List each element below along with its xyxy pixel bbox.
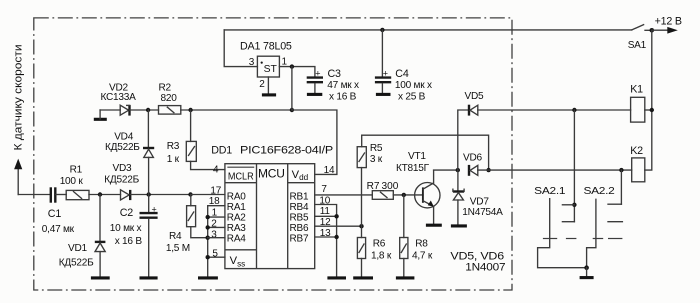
node +12 bbox=[650, 28, 655, 33]
diode VD5 bbox=[458, 110, 469, 170]
svg-text:R7 300: R7 300 bbox=[367, 181, 399, 192]
node SA2.2 tap bbox=[619, 168, 623, 172]
svg-text:RB7: RB7 bbox=[290, 233, 309, 244]
+12V top rail bbox=[224, 29, 632, 31]
wire rail to pin14 riser bbox=[292, 110, 337, 174]
node R4 junction bbox=[188, 192, 192, 196]
switch SA2.2 wiper bbox=[587, 199, 596, 267]
svg-text:17: 17 bbox=[210, 185, 221, 196]
relay K1 bbox=[631, 97, 645, 122]
wire RA1 stub and ground bracket bbox=[208, 206, 225, 277]
svg-text:VD3: VD3 bbox=[113, 163, 133, 174]
wire RA4 stub node bbox=[206, 236, 210, 240]
svg-text:SA1: SA1 bbox=[628, 40, 647, 51]
wire RA2 stub bbox=[208, 216, 225, 218]
svg-text:R3: R3 bbox=[167, 141, 180, 152]
svg-text:MCLR: MCLR bbox=[228, 171, 254, 182]
wire RB4 stub and right ground bracket bbox=[315, 205, 337, 277]
svg-text:R2: R2 bbox=[159, 82, 172, 93]
zener VD2 КС133А bbox=[120, 105, 129, 115]
ground R6 bbox=[353, 276, 373, 279]
node VD4/C2 junction bbox=[147, 192, 151, 196]
svg-text:C3: C3 bbox=[328, 68, 342, 80]
svg-text:ST: ST bbox=[264, 64, 278, 75]
svg-text:+: + bbox=[152, 204, 157, 214]
capacitor C3 bbox=[307, 76, 323, 78]
switch SA1 bbox=[632, 25, 644, 30]
+12V arrow bbox=[652, 29, 668, 31]
wire RB6 pin12 to divider bbox=[315, 225, 362, 227]
wire R1 to node bbox=[89, 194, 121, 196]
svg-text:КД522Б: КД522Б bbox=[104, 174, 139, 185]
svg-text:14: 14 bbox=[324, 165, 335, 176]
svg-text:1,5 М: 1,5 М bbox=[166, 243, 190, 254]
ground VD7 bbox=[451, 224, 467, 227]
svg-text:х 25 В: х 25 В bbox=[398, 92, 426, 103]
svg-text:С2: С2 bbox=[120, 207, 134, 219]
op IC DA1 78L05 box bbox=[257, 56, 279, 77]
DA1 pin2 ground stub bbox=[267, 77, 269, 93]
wire VD5 to K1 bbox=[478, 109, 631, 111]
svg-text:КД522Б: КД522Б bbox=[59, 257, 94, 268]
svg-text:5: 5 bbox=[212, 249, 218, 260]
node +5V from regulator bbox=[290, 108, 294, 112]
wire Vss stub bbox=[208, 256, 225, 258]
ground MCU left bbox=[198, 276, 218, 279]
ground VT1 emitter bbox=[426, 224, 442, 227]
svg-text:R8: R8 bbox=[415, 239, 428, 250]
wire C1 to R1 bbox=[56, 194, 66, 196]
svg-text:+: + bbox=[315, 69, 320, 79]
svg-text:4: 4 bbox=[213, 165, 219, 176]
resistor R5 bbox=[362, 135, 489, 170]
ground R8 bbox=[396, 276, 415, 279]
svg-text:3: 3 bbox=[211, 229, 217, 240]
svg-text:1N4007: 1N4007 bbox=[465, 261, 505, 273]
svg-text:VD7: VD7 bbox=[470, 197, 490, 208]
svg-text:х 16 В: х 16 В bbox=[115, 236, 143, 247]
node R8/base bbox=[402, 193, 406, 197]
svg-text:R1: R1 bbox=[70, 164, 83, 175]
node R5/R6 divider bbox=[359, 224, 363, 228]
svg-text:K1: K1 bbox=[630, 84, 643, 96]
svg-text:3 к: 3 к bbox=[370, 154, 383, 165]
svg-text:К датчику скорости: К датчику скорости bbox=[13, 44, 25, 150]
wire R2 to R3 node bbox=[181, 109, 292, 111]
resistor R4 bbox=[190, 195, 192, 206]
svg-text:Vdd: Vdd bbox=[292, 169, 309, 182]
diode VD1 bbox=[99, 195, 101, 242]
svg-text:RA4: RA4 bbox=[227, 233, 246, 244]
switch SA2.2 moving contact from K2 bbox=[620, 170, 622, 204]
wire VD2 to node bbox=[130, 109, 159, 111]
wire collector to VD node bbox=[434, 169, 458, 171]
svg-text:RB1: RB1 bbox=[290, 191, 309, 202]
node VD1 junction bbox=[98, 192, 102, 196]
MCU DD1 box bbox=[225, 164, 315, 269]
input arrow bbox=[17, 169, 19, 195]
wire node to +5 rail bbox=[291, 67, 293, 110]
wire RB7 stub bbox=[315, 236, 337, 238]
wire VD6 to K2 bbox=[478, 169, 632, 171]
svg-text:VT1: VT1 bbox=[408, 151, 426, 162]
svg-text:+12 В: +12 В bbox=[655, 15, 682, 27]
svg-text:820: 820 bbox=[161, 93, 178, 104]
svg-text:0,47 мк: 0,47 мк bbox=[42, 224, 75, 235]
ground C4 bbox=[376, 93, 391, 96]
resistor R6 bbox=[357, 238, 365, 259]
svg-text:100 мк х: 100 мк х bbox=[395, 80, 432, 91]
svg-text:R5: R5 bbox=[370, 143, 383, 154]
svg-text:VD4: VD4 bbox=[114, 131, 134, 142]
ground DA1 bbox=[262, 93, 276, 96]
capacitor C4 bbox=[381, 30, 383, 76]
svg-text:1 к: 1 к bbox=[167, 154, 180, 165]
svg-text:Vss: Vss bbox=[230, 255, 246, 268]
ground C3 bbox=[307, 93, 322, 96]
svg-text:RA0: RA0 bbox=[227, 191, 246, 202]
svg-text:7: 7 bbox=[321, 184, 327, 195]
node C4 tap bbox=[380, 28, 384, 32]
svg-text:VD1: VD1 bbox=[68, 243, 88, 254]
diode VD6 bbox=[468, 165, 470, 176]
resistor R8 bbox=[403, 195, 405, 238]
svg-text:R4: R4 bbox=[169, 231, 182, 242]
transistor VT1 bbox=[415, 183, 440, 208]
ground C2 bbox=[140, 276, 158, 279]
svg-text:47 мк х: 47 мк х bbox=[327, 80, 359, 91]
svg-text:100 к: 100 к bbox=[60, 176, 84, 187]
resistor R1 bbox=[66, 190, 89, 199]
relay K2 bbox=[632, 158, 645, 182]
ground VD1 bbox=[91, 276, 110, 279]
wire RA3 stub bbox=[208, 226, 225, 228]
svg-text:КТ815Г: КТ815Г bbox=[396, 163, 430, 174]
svg-text:C4: C4 bbox=[395, 68, 409, 80]
svg-text:K2: K2 bbox=[630, 145, 643, 157]
svg-text:RB4: RB4 bbox=[290, 202, 309, 213]
svg-text:+: + bbox=[383, 69, 388, 79]
wire pin7 to R7 bbox=[315, 194, 373, 196]
svg-text:10 мк х: 10 мк х bbox=[110, 223, 142, 234]
capacitor C1 bbox=[50, 187, 52, 202]
svg-text:RB5: RB5 bbox=[290, 212, 309, 223]
zener VD7 1N4754A bbox=[457, 170, 459, 191]
svg-text:VD6: VD6 bbox=[463, 152, 483, 163]
node VD2/R2/VD4 bbox=[146, 108, 150, 112]
enclosure boundary dash-dot frame bbox=[34, 18, 512, 290]
svg-text:КС133А: КС133А bbox=[101, 92, 137, 103]
ground SA2 bbox=[586, 268, 588, 277]
svg-text:х 16 В: х 16 В bbox=[329, 92, 357, 103]
svg-text:SA2.2: SA2.2 bbox=[584, 186, 616, 197]
wire input to C1 bbox=[18, 194, 50, 196]
switch SA2.1 moving contact from K1 bbox=[573, 110, 575, 222]
node VD5/VD7 collector bbox=[456, 168, 460, 172]
svg-text:VD5: VD5 bbox=[465, 91, 485, 102]
svg-text:4,7 к: 4,7 к bbox=[412, 251, 433, 262]
svg-text:2: 2 bbox=[259, 79, 265, 90]
wire VD3 to node bbox=[130, 194, 190, 196]
svg-text:3: 3 bbox=[249, 57, 255, 68]
diode VD4 bbox=[147, 110, 149, 147]
svg-text:1N4754A: 1N4754A bbox=[462, 207, 503, 218]
svg-text:DD1: DD1 bbox=[211, 144, 232, 156]
node R3 bbox=[188, 108, 192, 112]
wire DA1 output bbox=[279, 67, 315, 77]
svg-text:RA3: RA3 bbox=[227, 223, 246, 234]
wire R7 to base bbox=[393, 194, 423, 196]
node SA2.1 tap bbox=[572, 108, 576, 112]
capacitor C2 bbox=[148, 195, 150, 213]
+12V rail right bbox=[645, 30, 652, 170]
node VD6/K2/R5 bbox=[486, 168, 490, 172]
svg-text:1,8 к: 1,8 к bbox=[371, 251, 392, 262]
diode VD3 bbox=[121, 190, 130, 200]
svg-text:1: 1 bbox=[282, 56, 288, 67]
svg-text:КД522Б: КД522Б bbox=[105, 142, 140, 153]
switch SA2.1 wiper bbox=[538, 199, 587, 268]
svg-text:PIC16F628-04I/P: PIC16F628-04I/P bbox=[240, 144, 333, 156]
ground MCU right bbox=[327, 276, 346, 279]
svg-text:11: 11 bbox=[320, 206, 331, 217]
node SA2 common bbox=[584, 265, 589, 270]
SA2 mechanical link dashes bbox=[543, 238, 557, 240]
svg-text:RA2: RA2 bbox=[227, 212, 246, 223]
regulator DA1 78L05 input wire bbox=[224, 30, 257, 67]
svg-text:MCU: MCU bbox=[258, 167, 285, 181]
svg-text:SA2.1: SA2.1 bbox=[534, 186, 566, 197]
svg-text:С1: С1 bbox=[48, 208, 62, 220]
resistor R2 bbox=[159, 106, 181, 115]
ground VD2 bbox=[94, 118, 107, 121]
svg-text:R6: R6 bbox=[373, 239, 386, 250]
wire ground to VD2 bbox=[100, 109, 120, 111]
wire RB5 stub bbox=[315, 215, 337, 217]
resistor R3 bbox=[190, 110, 192, 141]
svg-text:RB6: RB6 bbox=[290, 223, 309, 234]
wire node to MCU pin17 bbox=[191, 194, 225, 196]
node C3 tap bbox=[290, 64, 294, 68]
svg-text:DA1 78L05: DA1 78L05 bbox=[240, 41, 292, 53]
resistor R7 bbox=[372, 191, 393, 200]
svg-text:RA1: RA1 bbox=[227, 202, 246, 213]
